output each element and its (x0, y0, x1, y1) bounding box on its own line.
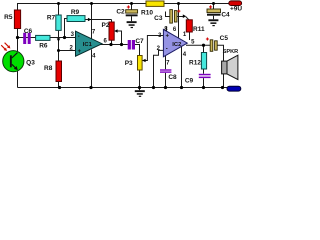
svg-text:R9: R9 (71, 9, 80, 16)
svg-text:R10: R10 (141, 9, 153, 16)
svg-text:C9: C9 (185, 77, 194, 84)
svg-text:+9U: +9U (230, 6, 242, 13)
svg-text:R12: R12 (189, 60, 201, 67)
svg-text:R11: R11 (193, 26, 205, 33)
svg-text:IC1: IC1 (83, 42, 93, 48)
svg-text:+: + (165, 33, 169, 39)
svg-text:-: - (78, 34, 80, 40)
svg-text:P2: P2 (102, 22, 110, 29)
svg-text:C5: C5 (220, 35, 229, 42)
svg-text:R7: R7 (47, 15, 56, 22)
svg-text:R5: R5 (4, 14, 13, 21)
svg-text:C4: C4 (221, 11, 230, 18)
svg-text:IC2: IC2 (172, 42, 181, 48)
svg-text:P3: P3 (125, 60, 133, 67)
svg-text:-: - (166, 47, 168, 53)
svg-text:C2: C2 (116, 9, 125, 16)
svg-text:C6: C6 (24, 28, 33, 35)
svg-text:Q3: Q3 (26, 59, 35, 66)
svg-text:SPKR: SPKR (223, 49, 239, 55)
svg-text:R6: R6 (39, 42, 48, 49)
svg-text:C7: C7 (135, 38, 144, 45)
svg-text:C3: C3 (154, 15, 163, 22)
svg-text:C8: C8 (168, 74, 177, 81)
svg-text:R8: R8 (44, 65, 53, 72)
svg-text:+: + (77, 49, 81, 55)
